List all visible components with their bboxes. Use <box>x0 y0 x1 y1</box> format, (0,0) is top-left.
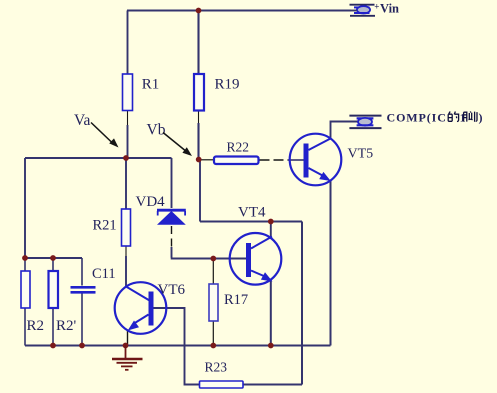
label COMP chinese char 脚 <box>464 111 477 121</box>
ground <box>112 346 143 370</box>
wire VT6 emitter lead <box>127 330 129 346</box>
junction R2 top <box>22 255 28 261</box>
svg-text:Va: Va <box>74 112 90 129</box>
junction C11 bottom <box>79 343 85 349</box>
resistor R2 <box>21 271 44 334</box>
junction ground node <box>123 343 129 349</box>
junction VT4 emitter bottom <box>268 343 274 349</box>
node Vb label and arrow <box>147 122 193 157</box>
svg-text:R23: R23 <box>205 360 228 375</box>
wire C11 leads <box>81 258 83 346</box>
transistor VT5 <box>290 134 373 186</box>
resistor R1 <box>123 74 160 111</box>
resistor R23 <box>200 360 244 389</box>
label COMP digit 1 <box>460 113 466 125</box>
wire R17 top lead <box>212 259 214 285</box>
resistor R19 <box>194 74 240 111</box>
transistor VT4 <box>230 205 282 285</box>
junction dot top rail / R19 <box>196 8 202 14</box>
svg-text:Vin: Vin <box>380 2 399 16</box>
wire node-b vertical drop <box>199 160 201 222</box>
svg-text:R17: R17 <box>224 292 248 308</box>
wire VD4 bottom dashed lead <box>171 226 173 258</box>
resistor R22 <box>214 140 259 165</box>
junction R17 bottom <box>210 343 216 349</box>
wire R21 bottom lead to VT6 collector <box>125 246 127 288</box>
wire top rail <box>127 10 351 12</box>
resistor R21 <box>93 209 131 246</box>
wire VT6 base and R23 left riser <box>153 308 200 385</box>
svg-text:VT5: VT5 <box>348 147 374 162</box>
resistor R2' <box>49 271 77 334</box>
wire R23 right lead <box>243 384 302 386</box>
capacitor C11 <box>71 266 116 292</box>
wire R19 top lead <box>197 11 199 75</box>
svg-text:R21: R21 <box>93 218 117 234</box>
port +Vin <box>350 2 400 16</box>
diode VD4 (zener) <box>136 194 186 225</box>
wire R22 left lead <box>201 159 214 161</box>
svg-text:VT4: VT4 <box>238 205 266 221</box>
node Va label and arrow <box>74 112 119 148</box>
svg-text:VD4: VD4 <box>136 194 166 210</box>
wire VT4 emitter lead <box>270 279 272 346</box>
junction node Va <box>123 155 129 161</box>
wire VD4 top lead <box>171 158 173 208</box>
wire R1 bottom lead <box>127 111 129 159</box>
wire bottom ground rail <box>25 345 331 347</box>
junction R17 top / VT4 base <box>210 256 216 262</box>
svg-text:+: + <box>374 2 379 12</box>
wire node-a horizontal rail <box>25 157 172 159</box>
wire left vertical drop <box>24 158 26 258</box>
label COMP closing paren <box>479 111 483 125</box>
svg-text:R2': R2' <box>56 318 77 334</box>
wire VT5 emitter drop <box>330 180 332 346</box>
svg-text:VT6: VT6 <box>158 282 186 298</box>
wire R2' leads <box>52 258 54 346</box>
resistor R17 <box>209 284 248 321</box>
label COMP chinese char 的 <box>448 112 458 122</box>
wire Vin port stub <box>351 10 357 12</box>
wire VT5 collector to COMP port <box>331 122 359 140</box>
svg-text:COMP(IC: COMP(IC <box>387 111 447 125</box>
wire VT4 collector rail <box>200 221 302 223</box>
wire right riser to R23 <box>301 222 303 385</box>
wire R21 top lead <box>125 158 127 209</box>
junction VT4 collector <box>268 219 274 225</box>
junction node Vb <box>196 157 202 163</box>
wire R1 top lead <box>127 11 129 75</box>
wire R17 bottom lead <box>212 321 214 346</box>
svg-text:Vb: Vb <box>147 122 166 139</box>
svg-text:C11: C11 <box>92 266 116 282</box>
port COMP (IC pin 1) <box>349 111 446 129</box>
svg-text:R22: R22 <box>227 140 250 155</box>
svg-text:): ) <box>479 111 483 125</box>
junction R2' top <box>50 255 56 261</box>
wire R2 leads <box>24 258 26 346</box>
wire VT4 collector lead <box>270 222 272 239</box>
wire capacitor branch rail <box>25 257 82 259</box>
wire R19 bottom lead <box>198 111 200 161</box>
transistor VT6 <box>115 282 186 334</box>
junction R2' bottom <box>50 343 56 349</box>
svg-text:R19: R19 <box>215 77 240 93</box>
svg-text:R1: R1 <box>142 77 160 93</box>
wire VT4 base rail <box>171 258 247 260</box>
svg-text:R2: R2 <box>27 318 45 334</box>
wire VT5 base dashed lead <box>260 159 305 161</box>
